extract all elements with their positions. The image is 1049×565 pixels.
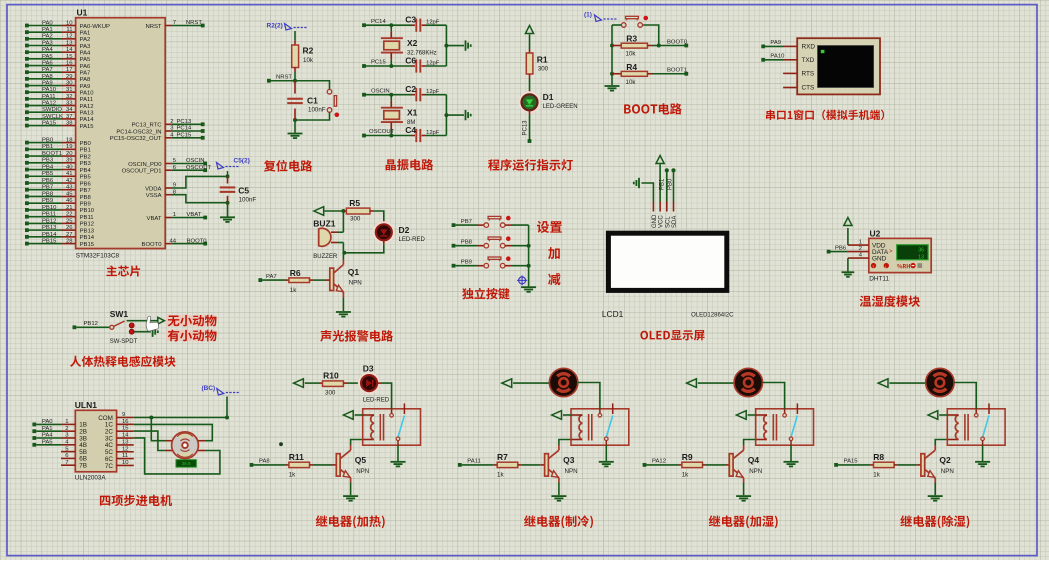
svg-text:VCC: VCC [659,215,665,228]
svg-text:22: 22 [66,212,73,218]
svg-text:VBAT: VBAT [147,216,162,222]
svg-text:PC13: PC13 [177,119,192,125]
svg-text:PB6: PB6 [80,181,92,187]
svg-text:SWCLK: SWCLK [42,114,63,120]
svg-text:R2: R2 [303,46,314,56]
svg-text:PA12: PA12 [80,104,94,110]
svg-text:PB14: PB14 [42,232,57,238]
svg-text:PA1: PA1 [80,30,91,36]
svg-text:C5: C5 [238,186,249,196]
svg-text:BOOT0: BOOT0 [187,238,208,244]
svg-text:R6: R6 [290,268,301,278]
svg-text:14: 14 [122,433,129,439]
svg-text:12pF: 12pF [426,61,440,67]
svg-text:SW-SPDT: SW-SPDT [110,339,138,345]
svg-text:PA12: PA12 [652,459,666,465]
svg-text:PA11: PA11 [80,97,94,103]
svg-text:PB1: PB1 [80,148,91,154]
svg-text:1k: 1k [682,472,689,479]
svg-text:PA4: PA4 [42,433,53,439]
svg-text:X2: X2 [407,38,418,48]
svg-text:PB4: PB4 [42,164,54,170]
svg-text:↓: ↓ [885,264,887,269]
svg-text:PA0: PA0 [42,419,53,425]
svg-text:PA10: PA10 [42,87,57,93]
svg-text:R2(2): R2(2) [267,23,283,30]
svg-text:46: 46 [66,198,73,204]
svg-text:34: 34 [66,107,73,113]
svg-text:45: 45 [66,191,73,197]
svg-text:10: 10 [66,20,73,26]
svg-text:RTS: RTS [802,71,815,78]
svg-text:PA14: PA14 [80,117,95,123]
svg-text:1k: 1k [873,472,880,479]
svg-text:Q1: Q1 [348,267,360,277]
svg-text:D3: D3 [363,364,374,374]
svg-text:2: 2 [859,246,862,252]
svg-text:CTS: CTS [802,85,815,92]
svg-text:BOOT1: BOOT1 [42,151,62,157]
svg-text:PB6: PB6 [42,178,54,184]
svg-text:ULN2003A: ULN2003A [75,475,107,482]
svg-text:PB7: PB7 [461,219,472,225]
svg-text:1k: 1k [497,472,504,479]
svg-text:PA6: PA6 [80,64,91,70]
svg-text:14: 14 [66,47,73,53]
svg-text:PA0: PA0 [42,20,53,26]
svg-text:BOOT0: BOOT0 [667,40,688,46]
svg-text:1: 1 [859,240,862,246]
svg-text:PA4: PA4 [80,50,91,56]
svg-text:15: 15 [122,426,129,432]
svg-text:43: 43 [66,185,73,191]
svg-text:C1: C1 [307,96,318,106]
svg-text:>: > [889,249,893,255]
svg-text:PB0: PB0 [668,178,674,190]
svg-text:OSCOUT: OSCOUT [186,165,212,171]
svg-text:PA1: PA1 [42,27,53,33]
svg-text:NRST: NRST [276,75,292,81]
svg-text:10k: 10k [626,51,637,58]
svg-text:300: 300 [325,390,336,397]
svg-text:12pF: 12pF [426,20,440,26]
svg-text:38.8: 38.8 [182,461,191,466]
svg-text:PC14-OSC32_IN: PC14-OSC32_IN [116,129,161,135]
svg-text:36: 36 [918,248,924,254]
svg-text:SWDIO: SWDIO [42,107,62,113]
svg-text:ULN1: ULN1 [75,400,97,410]
svg-text:Q3: Q3 [563,455,575,465]
svg-text:PA8: PA8 [42,74,53,80]
svg-text:LED-GREEN: LED-GREEN [543,104,578,110]
svg-text:R3: R3 [626,34,637,44]
svg-text:NPN: NPN [749,468,762,475]
svg-text:GND: GND [652,214,658,228]
svg-text:18: 18 [66,138,73,144]
svg-text:Q2: Q2 [939,455,951,465]
svg-text:PB9: PB9 [80,202,91,208]
svg-text:37: 37 [66,114,73,120]
svg-text:PA5: PA5 [42,54,53,60]
svg-text:7: 7 [173,20,176,26]
svg-text:1: 1 [173,212,176,218]
svg-text:BUZZER: BUZZER [313,254,338,260]
svg-text:OSCIN: OSCIN [186,158,205,164]
svg-text:BOOT1: BOOT1 [667,68,687,74]
svg-text:2: 2 [170,119,173,125]
svg-text:SDA: SDA [672,216,678,228]
svg-text:NRST: NRST [145,24,161,30]
svg-text:NPN: NPN [565,468,578,475]
svg-text:PB8: PB8 [461,239,473,245]
svg-text:PC14: PC14 [371,19,386,25]
svg-text:GND: GND [872,256,887,263]
svg-text:R7: R7 [497,452,508,462]
svg-text:R11: R11 [289,452,304,462]
svg-text:LED-RED: LED-RED [399,237,426,243]
svg-text:9: 9 [122,412,125,418]
svg-text:11: 11 [66,27,72,33]
svg-text:15: 15 [66,54,73,60]
svg-text:PB5: PB5 [42,171,54,177]
svg-text:7C: 7C [105,463,114,470]
svg-text:PB12: PB12 [84,321,98,327]
svg-text:PC15: PC15 [371,60,386,66]
svg-text:39: 39 [66,158,73,164]
svg-text:PB0: PB0 [80,141,92,147]
svg-text:PB3: PB3 [80,161,92,167]
svg-text:41: 41 [66,171,73,177]
svg-text:PA15: PA15 [844,459,859,465]
svg-text:VSSA: VSSA [146,193,162,199]
svg-text:12: 12 [122,446,129,452]
svg-text:PA0-WKUP: PA0-WKUP [80,24,110,30]
svg-text:D2: D2 [399,225,410,235]
svg-text:OSCIN: OSCIN [371,88,390,94]
svg-text:PB9: PB9 [461,259,472,265]
svg-text:13: 13 [66,40,73,46]
svg-text:R10: R10 [323,371,339,381]
svg-text:7: 7 [65,460,68,466]
svg-text:PB1: PB1 [42,144,53,150]
svg-text:33: 33 [66,100,73,106]
svg-text:PA4: PA4 [42,47,53,53]
svg-text:20: 20 [66,151,73,157]
svg-text:OLED12864I2C: OLED12864I2C [691,313,734,319]
svg-text:PB6: PB6 [835,245,847,251]
svg-text:38: 38 [66,120,73,126]
svg-text:PB5: PB5 [80,175,92,181]
svg-text:PA3: PA3 [80,44,91,50]
svg-text:32: 32 [66,94,73,100]
svg-text:PA8: PA8 [80,77,91,83]
svg-text:PA12: PA12 [42,100,56,106]
svg-text:27: 27 [66,232,73,238]
svg-text:31: 31 [66,87,73,93]
svg-text:PA10: PA10 [770,54,785,60]
svg-text:SCL: SCL [665,216,671,228]
svg-text:PB12: PB12 [80,222,94,228]
svg-text:10: 10 [122,460,129,466]
svg-text:PC13: PC13 [522,120,528,136]
svg-text:PA9: PA9 [42,80,53,86]
svg-text:NPN: NPN [941,468,954,475]
svg-text:STM32F103C8: STM32F103C8 [76,253,120,260]
svg-text:PB8: PB8 [42,191,54,197]
svg-text:PB10: PB10 [42,205,57,211]
svg-text:PA5: PA5 [42,439,53,445]
svg-text:16: 16 [122,419,129,425]
svg-text:29: 29 [66,74,73,80]
svg-text:↑: ↑ [872,264,874,269]
svg-text:PA7: PA7 [80,70,91,76]
svg-text:2: 2 [65,426,68,432]
svg-text:1: 1 [65,419,68,425]
svg-text:PA5: PA5 [80,57,91,63]
svg-text:C2: C2 [405,84,416,94]
svg-text:R4: R4 [626,62,637,72]
svg-text:PA13: PA13 [80,111,95,117]
svg-text:C3: C3 [405,15,416,25]
svg-text:PA1: PA1 [42,426,53,432]
svg-text:PA6: PA6 [42,60,53,66]
svg-text:11: 11 [122,453,128,459]
svg-text:X1: X1 [407,108,418,118]
svg-text:PB4: PB4 [80,168,92,174]
svg-text:PB10: PB10 [80,208,95,214]
svg-text:13: 13 [122,439,129,445]
svg-text:PA8: PA8 [259,459,270,465]
svg-text:C5(2): C5(2) [234,158,250,165]
svg-text:PB15: PB15 [80,242,95,248]
svg-text:VDDA: VDDA [145,186,161,192]
svg-text:PA10: PA10 [80,91,95,97]
svg-text:R9: R9 [682,452,693,462]
svg-text:Q4: Q4 [748,455,760,465]
svg-text:D1: D1 [543,92,554,102]
svg-text:(BC): (BC) [202,385,216,392]
svg-text:42: 42 [66,178,73,184]
svg-text:C4: C4 [405,125,416,135]
svg-text:PC15: PC15 [177,133,192,139]
svg-text:PB9: PB9 [42,198,53,204]
svg-text:Q5: Q5 [355,455,367,465]
svg-text:TXD: TXD [802,57,815,64]
svg-text:19: 19 [66,144,73,150]
svg-text:44: 44 [169,238,176,244]
svg-text:100nF: 100nF [239,197,257,204]
svg-text:PC14: PC14 [177,126,192,132]
svg-text:12pF: 12pF [426,130,440,136]
svg-text:DHT11: DHT11 [869,276,889,283]
svg-text:PA2: PA2 [42,34,53,40]
svg-text:BUZ1: BUZ1 [313,219,335,229]
svg-text:PA7: PA7 [266,274,277,280]
svg-text:VBAT: VBAT [186,212,201,218]
svg-text:PA11: PA11 [467,459,481,465]
svg-text:(1): (1) [584,12,592,19]
svg-text:PB11: PB11 [80,215,94,221]
svg-text:PB14: PB14 [80,235,95,241]
svg-text:PA9: PA9 [770,40,781,46]
svg-text:13: 13 [918,254,924,260]
svg-text:12pF: 12pF [426,89,440,95]
svg-text:PA11: PA11 [42,94,56,100]
svg-text:PB7: PB7 [42,185,53,191]
svg-text:NPN: NPN [356,468,369,475]
svg-text:NPN: NPN [349,280,362,287]
svg-text:PA7: PA7 [42,67,53,73]
svg-text:PA15: PA15 [42,120,57,126]
svg-text:1k: 1k [289,472,296,479]
svg-text:R8: R8 [873,452,884,462]
svg-text:PB2: PB2 [80,154,91,160]
svg-text:PB8: PB8 [80,195,92,201]
svg-text:300: 300 [350,216,361,223]
svg-text:300: 300 [538,66,549,73]
svg-text:OSCOUT: OSCOUT [369,129,395,135]
svg-text:1k: 1k [290,287,297,294]
svg-text:PB11: PB11 [42,212,56,218]
svg-text:PB13: PB13 [80,228,95,234]
svg-text:10k: 10k [626,79,637,86]
svg-text:100nF: 100nF [308,107,326,114]
svg-text:PB0: PB0 [42,138,54,144]
svg-text:PB13: PB13 [42,225,57,231]
svg-text:NRST: NRST [186,20,202,26]
svg-text:PB7: PB7 [80,188,91,194]
svg-text:7B: 7B [79,463,87,470]
svg-text:16: 16 [66,60,73,66]
svg-text:R5: R5 [349,198,360,208]
svg-text:10k: 10k [303,57,314,64]
svg-text:25: 25 [66,218,73,224]
svg-text:PB12: PB12 [42,218,56,224]
svg-text:U2: U2 [870,229,881,239]
svg-text:R1: R1 [537,55,548,65]
svg-text:SW1: SW1 [110,309,129,319]
svg-text:PA15: PA15 [80,124,95,130]
svg-text:PB3: PB3 [42,158,54,164]
svg-text:LED-RED: LED-RED [363,398,390,404]
svg-text:C6: C6 [405,56,416,66]
svg-text:PC13_RTC: PC13_RTC [131,123,162,129]
svg-text:17: 17 [66,67,73,73]
svg-text:40: 40 [66,164,73,170]
svg-text:12: 12 [66,34,73,40]
svg-text:26: 26 [66,225,73,231]
svg-text:U1: U1 [77,8,88,18]
svg-text:PA3: PA3 [42,40,53,46]
svg-text:30: 30 [66,80,73,86]
svg-text:21: 21 [66,205,73,211]
svg-text:PB15: PB15 [42,238,57,244]
svg-text:PB1: PB1 [660,178,666,190]
svg-text:OSCOUT_PD1: OSCOUT_PD1 [122,169,162,175]
svg-text:PA2: PA2 [80,37,91,43]
svg-text:PC15-OSC32_OUT: PC15-OSC32_OUT [110,136,162,142]
svg-text:LCD1: LCD1 [602,309,624,319]
svg-text:28: 28 [66,238,73,244]
svg-text:PA9: PA9 [80,84,91,90]
svg-text:OSCIN_PD0: OSCIN_PD0 [128,162,162,168]
svg-text:BOOT0: BOOT0 [142,242,163,248]
svg-text:RXD: RXD [802,44,816,51]
